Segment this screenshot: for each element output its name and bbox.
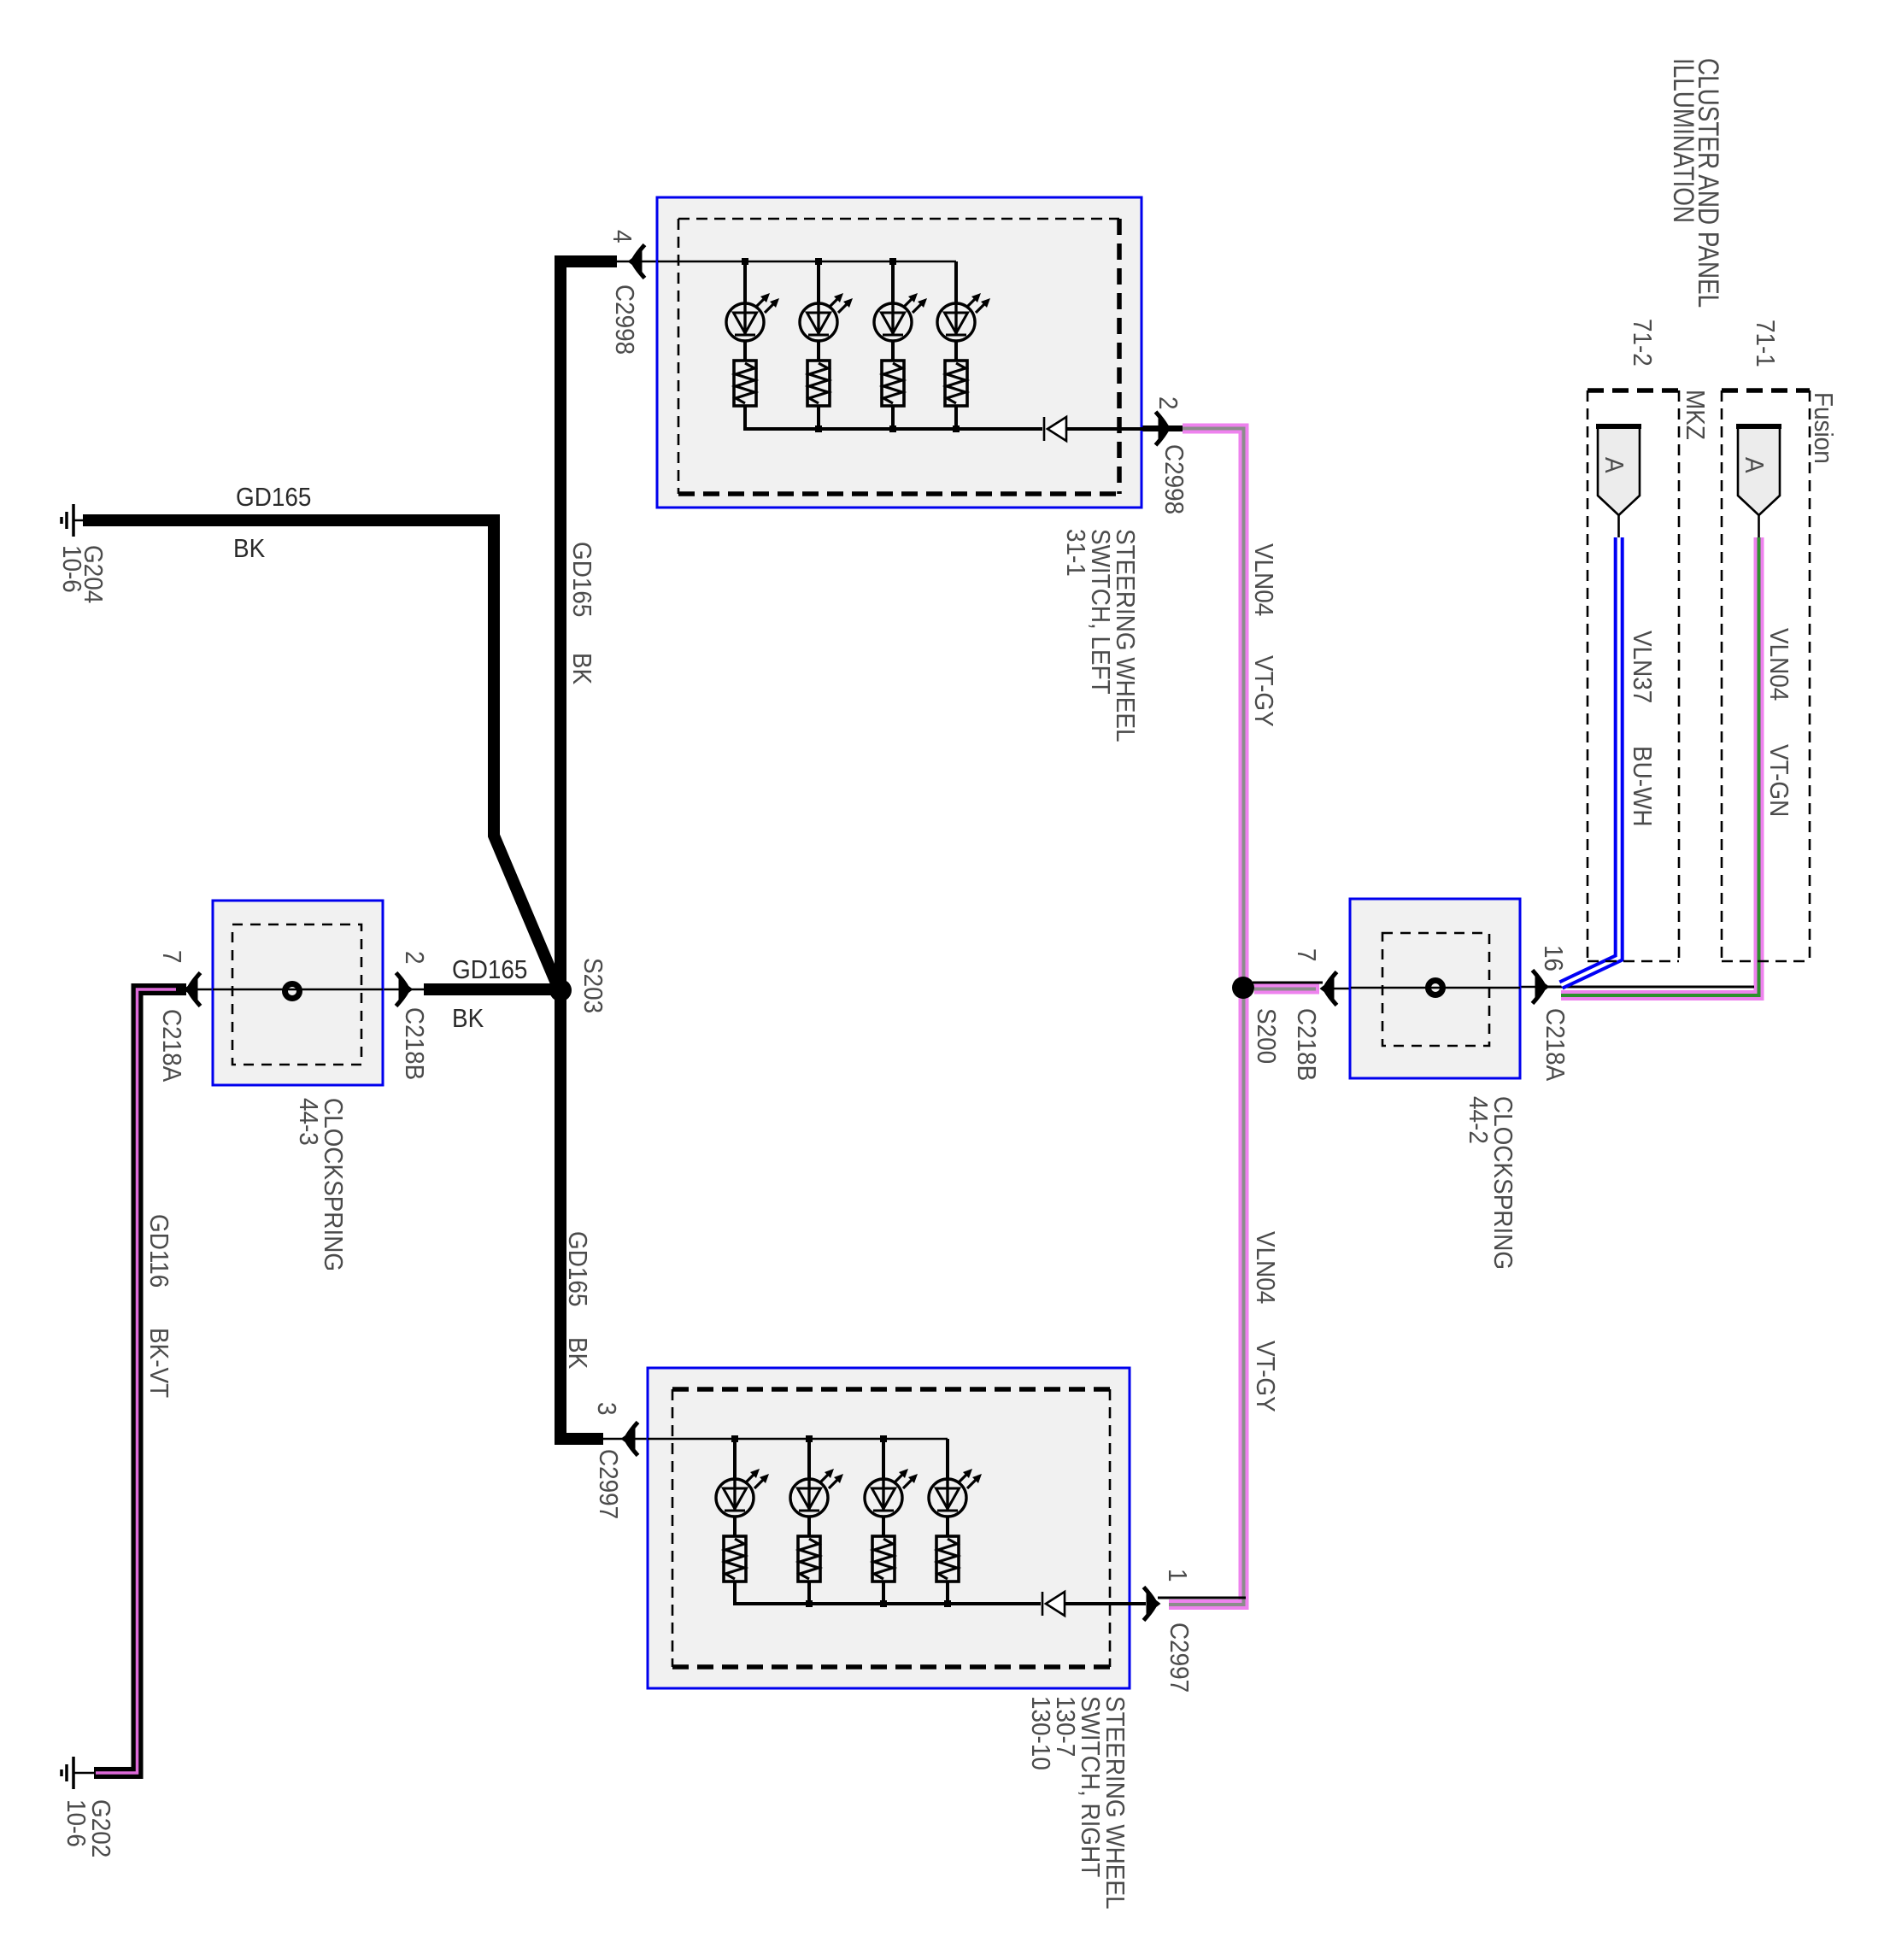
- switch right internal top rail: [648, 1435, 948, 1442]
- svg-text:71-1: 71-1: [1751, 320, 1781, 367]
- connector arrow pin 16 C218A: [1533, 971, 1548, 1004]
- svg-text:4: 4: [607, 230, 637, 244]
- ground G202: [62, 1757, 96, 1789]
- LED L3 switch left: [874, 293, 927, 341]
- label GD165 horizontal (S203 run): [452, 955, 527, 985]
- label C218A (44-3): [157, 1009, 187, 1083]
- LED L2 switch left: [800, 293, 853, 341]
- label VT-GY lower: [1251, 1341, 1281, 1412]
- connector arrow pin 1 C2997: [1144, 1587, 1159, 1621]
- LED L5 switch right: [716, 1469, 769, 1517]
- resistor R5 switch right: [724, 1536, 746, 1581]
- label C218A (44-2): [1541, 1008, 1570, 1082]
- label GD116: [144, 1214, 174, 1288]
- connector arrow pin 7 C218A: [185, 973, 201, 1006]
- LED L7 switch right: [865, 1469, 918, 1517]
- off-page connector A (Fusion): [1736, 426, 1781, 537]
- svg-text:C2997: C2997: [1165, 1623, 1194, 1693]
- label VT-GY upper: [1249, 655, 1279, 727]
- svg-text:GD165: GD165: [567, 542, 597, 617]
- pin line pin16 C218A: [1520, 986, 1547, 989]
- switch right internal branches: [735, 1439, 948, 1604]
- svg-text:7: 7: [1292, 948, 1322, 962]
- label 4: [607, 230, 637, 244]
- label BK horizontal (ground run): [233, 534, 266, 564]
- off-page connector A (MKZ): [1596, 426, 1641, 537]
- connector arrow pin 2 C218B: [396, 973, 412, 1006]
- svg-text:STEERING WHEELSWITCH, LEFT31-1: STEERING WHEELSWITCH, LEFT31-1: [1061, 529, 1141, 742]
- label G202 10-6: [62, 1799, 116, 1857]
- clockspring 44-2 pin line: [1351, 987, 1520, 989]
- svg-text:3: 3: [592, 1402, 622, 1416]
- label BK horizontal (S203 run): [452, 1004, 484, 1034]
- pin line pin4 C2998: [617, 261, 658, 263]
- label VLN04 lower: [1251, 1231, 1281, 1304]
- label BK-VT: [144, 1328, 174, 1398]
- label 71-1: [1751, 320, 1781, 367]
- pin line pin7 C218B: [1323, 988, 1351, 990]
- label C2997 (pin1): [1165, 1623, 1194, 1693]
- wire VLN04 VT-GN from Fusion A connector to clockspring 44-2 pin 16: [1547, 537, 1759, 995]
- LED L8 switch right: [929, 1469, 982, 1517]
- svg-text:2: 2: [1153, 396, 1183, 410]
- svg-text:VLN37: VLN37: [1628, 631, 1658, 703]
- svg-text:GD165: GD165: [452, 955, 527, 985]
- svg-text:GD165: GD165: [563, 1231, 593, 1306]
- switch right bottom rail: [735, 1581, 1146, 1607]
- svg-text:VLN04: VLN04: [1764, 628, 1794, 701]
- wire GD165 BK S203 to clockspring 44-3 pin 2 (thick black): [424, 983, 564, 995]
- svg-text:GD116: GD116: [144, 1214, 174, 1288]
- svg-text:VT-GY: VT-GY: [1249, 655, 1279, 727]
- label BK vertical lower: [563, 1337, 593, 1370]
- svg-text:STEERING WHEELSWITCH, RIGHT130: STEERING WHEELSWITCH, RIGHT130-7130-10: [1026, 1696, 1130, 1910]
- svg-text:G20410-6: G20410-6: [57, 545, 109, 603]
- label 1: [1163, 1569, 1193, 1582]
- svg-text:BK: BK: [452, 1004, 484, 1034]
- svg-text:VLN04: VLN04: [1249, 543, 1279, 616]
- label 2 (pin2 switch left): [1153, 396, 1183, 410]
- label C218B (44-2): [1292, 1008, 1322, 1081]
- LED L4 switch left: [937, 293, 990, 341]
- label S203: [578, 958, 608, 1013]
- pin line pin2 C218B clockspring 44-3: [383, 989, 424, 991]
- svg-text:C2997: C2997: [594, 1449, 624, 1519]
- LED L6 switch right: [790, 1469, 843, 1517]
- clockspring 44-3 coil symbol: [285, 984, 300, 999]
- label 3: [592, 1402, 622, 1416]
- label C2998 (pin2): [1159, 444, 1189, 514]
- wire GD116 BK-VT from clockspring 44-3 pin 7 to G202 (black with violet stripe): [94, 989, 186, 1773]
- label GD165 horizontal (ground run): [236, 483, 311, 513]
- switch left internal top rail: [658, 258, 956, 265]
- label Fusion: [1809, 392, 1839, 464]
- connector arrow pin 7 C218B clockspring 44-2: [1322, 972, 1337, 1006]
- resistor R1 switch left: [734, 361, 756, 406]
- clockspring 44-3 pin line: [213, 989, 383, 991]
- dashed box Fusion 71-1: [1722, 390, 1810, 961]
- svg-text:BK: BK: [563, 1337, 593, 1370]
- clockspring 44-3 box: [213, 901, 383, 1085]
- label STEERING WHEEL SWITCH, RIGHT 130-7 130-10: [1026, 1696, 1130, 1910]
- svg-text:BK: BK: [233, 534, 266, 564]
- label CLOCKSPRING 44-2: [1464, 1096, 1518, 1270]
- wire GD165 BK from G204 to S203 (thick black): [83, 520, 557, 985]
- switch left internal branches: [745, 261, 956, 429]
- svg-text:BK: BK: [567, 653, 597, 685]
- ground G204: [62, 504, 89, 537]
- label GD165 vertical upper: [567, 542, 597, 617]
- svg-text:71-2: 71-2: [1628, 319, 1658, 367]
- steering wheel switch left box: [657, 197, 1142, 508]
- svg-text:7: 7: [157, 950, 187, 964]
- steering wheel switch right box: [648, 1368, 1130, 1688]
- svg-text:BU-WH: BU-WH: [1628, 746, 1658, 827]
- resistor R6 switch right: [798, 1536, 820, 1581]
- label BU-WH: [1628, 746, 1658, 827]
- wire GD165 BK from S203 down to steering wheel switch right pin 3: [561, 990, 603, 1439]
- label A (MKZ connector): [1599, 457, 1629, 473]
- clockspring 44-2 coil symbol: [1429, 981, 1443, 995]
- label C2998 (pin4): [610, 285, 640, 355]
- label VLN37: [1628, 631, 1658, 703]
- resistor R8 switch right: [936, 1536, 959, 1581]
- label 71-2: [1628, 319, 1658, 367]
- label VLN04 (right): [1764, 628, 1794, 701]
- splice node S203: [549, 979, 572, 1001]
- svg-text:S200: S200: [1252, 1008, 1282, 1064]
- svg-text:2: 2: [400, 951, 430, 965]
- resistor R2 switch left: [807, 361, 830, 406]
- LED L1 switch left: [726, 293, 779, 341]
- wire GD165 BK from steering wheel switch left pin 4 down to S203: [561, 261, 617, 990]
- connector arrow pin 3 C2997: [623, 1423, 638, 1456]
- svg-text:1: 1: [1163, 1569, 1193, 1582]
- pin line pin3 C2997: [603, 1438, 648, 1441]
- resistor R4 switch left: [945, 361, 967, 406]
- svg-text:C218A: C218A: [1541, 1008, 1570, 1082]
- svg-text:C218B: C218B: [400, 1007, 430, 1080]
- svg-text:S203: S203: [578, 958, 608, 1013]
- svg-text:C218B: C218B: [1292, 1008, 1322, 1081]
- svg-text:C2998: C2998: [1159, 444, 1189, 514]
- svg-text:CLOCKSPRING44-2: CLOCKSPRING44-2: [1464, 1096, 1518, 1270]
- wire VLN04 VT-GY pink: switch left pin2 down to S200 down to switch right pin1: [1130, 429, 1246, 1605]
- svg-text:VT-GY: VT-GY: [1251, 1341, 1281, 1412]
- connector arrow pin 4 C2998: [630, 245, 645, 279]
- label MKZ: [1681, 390, 1711, 440]
- wire VLN37 BU-WH from MKZ A connector to clockspring 44-2 pin 16: [1561, 537, 1619, 985]
- clockspring 44-2 box: [1350, 899, 1520, 1078]
- svg-text:A: A: [1740, 457, 1770, 473]
- svg-text:A: A: [1599, 457, 1629, 473]
- svg-text:C218A: C218A: [157, 1009, 187, 1083]
- connector arrow pin 2 C2998: [1156, 412, 1171, 445]
- svg-text:CLOCKSPRING44-3: CLOCKSPRING44-3: [294, 1098, 349, 1271]
- label VT-GN: [1764, 744, 1794, 817]
- label A (Fusion connector): [1740, 457, 1770, 473]
- svg-text:BK-VT: BK-VT: [144, 1328, 174, 1398]
- svg-text:GD165: GD165: [236, 483, 311, 513]
- svg-text:MKZ: MKZ: [1681, 390, 1711, 440]
- svg-text:VT-GN: VT-GN: [1764, 744, 1794, 817]
- label 7 (44-2): [1292, 948, 1322, 962]
- resistor R7 switch right: [872, 1536, 895, 1581]
- splice node S200: [1232, 977, 1254, 999]
- label S200: [1252, 1008, 1282, 1064]
- label title CLUSTER AND PANEL ILLUMINATION: [1667, 58, 1724, 308]
- label BK vertical upper: [567, 653, 597, 685]
- diode D2 switch right: [1042, 1592, 1065, 1616]
- label G204 10-6: [57, 545, 109, 603]
- label C2997 (pin3): [594, 1449, 624, 1519]
- label GD165 vertical lower: [563, 1231, 593, 1306]
- label CLOCKSPRING 44-3: [294, 1098, 349, 1271]
- svg-text:CLUSTER AND PANELILLUMINATION: CLUSTER AND PANELILLUMINATION: [1667, 58, 1724, 308]
- diode D1 switch left: [1044, 417, 1066, 441]
- label VLN04 upper: [1249, 543, 1279, 616]
- svg-text:C2998: C2998: [610, 285, 640, 355]
- label C218B (44-3): [400, 1007, 430, 1080]
- label 2 (44-3): [400, 951, 430, 965]
- svg-text:16: 16: [1539, 945, 1569, 971]
- dashed box MKZ 71-2: [1588, 390, 1679, 961]
- svg-text:G20210-6: G20210-6: [62, 1799, 116, 1857]
- wire VLN04 VT-GY stub S200 to clockspring 44-2 pin 7: [1253, 983, 1323, 989]
- label STEERING WHEEL SWITCH, LEFT 31-1: [1061, 529, 1141, 742]
- svg-text:Fusion: Fusion: [1809, 392, 1839, 464]
- label 16: [1539, 945, 1569, 971]
- switch left bottom rail: [745, 406, 1155, 432]
- resistor R3 switch left: [882, 361, 904, 406]
- svg-text:VLN04: VLN04: [1251, 1231, 1281, 1304]
- pin line pin7 C218A: [186, 989, 213, 991]
- label 7 (44-3): [157, 950, 187, 964]
